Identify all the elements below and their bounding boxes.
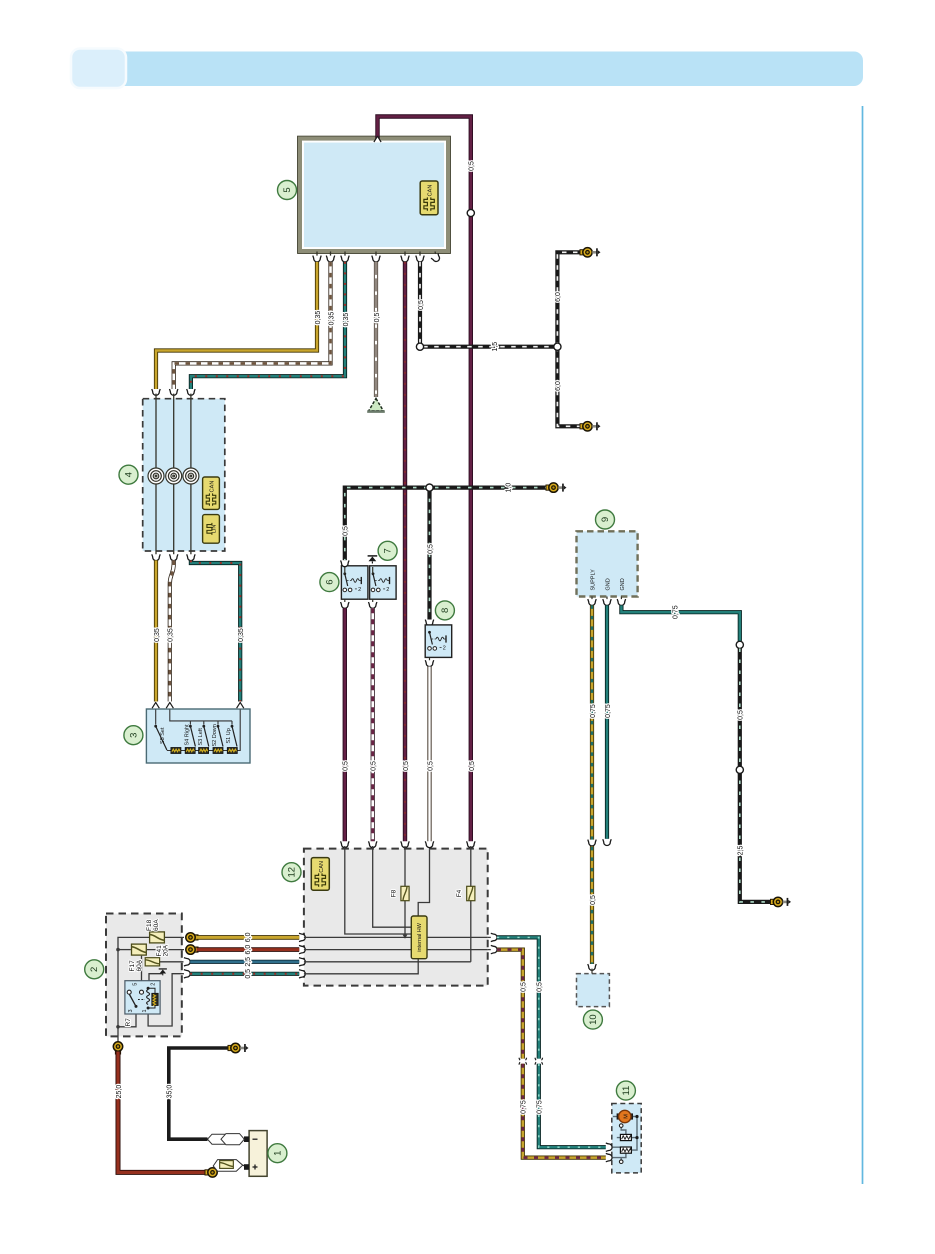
terminal circle a: [619, 1124, 623, 1128]
wire: U9 SUPPLY yellow/green down to U10: [590, 605, 594, 964]
fuse F8: [401, 886, 409, 900]
motor unit U11: [612, 1104, 641, 1173]
svg-text:F8: F8: [391, 889, 398, 897]
svg-text:0,35: 0,35: [168, 628, 175, 642]
svg-text:S2 Down: S2 Down: [212, 724, 218, 746]
svg-text:CAN: CAN: [319, 861, 325, 873]
wire: S8 white down to U12: [427, 667, 431, 843]
motor M: [617, 1110, 633, 1122]
open connector at GND stub end: [603, 839, 611, 845]
switch pack U3: [146, 709, 250, 763]
svg-text:6,0: 6,0: [245, 945, 252, 955]
fuse F41: [145, 958, 159, 966]
svg-text:GND: GND: [620, 578, 626, 590]
wire: U9 GND green stub: [605, 605, 609, 838]
ground stud G1: [580, 248, 601, 257]
svg-text:F4: F4: [456, 889, 463, 897]
ground stud G2: [580, 422, 601, 431]
U12 right pin cups: [488, 937, 492, 949]
svg-text:35,0: 35,0: [167, 1085, 174, 1099]
svg-text:1,5: 1,5: [492, 342, 499, 352]
wire: S6 violet down to U12: [343, 608, 347, 842]
U12 internal wiring: [304, 846, 488, 974]
junction box U12: [304, 849, 488, 986]
fuse box U2: [106, 914, 182, 1037]
svg-text:0,5: 0,5: [343, 526, 350, 536]
switch S3 Left: [198, 725, 209, 747]
svg-text:F18: F18: [146, 919, 153, 931]
control module U5 outline: [298, 136, 451, 253]
U10 top pin cup: [588, 964, 596, 970]
svg-text:6: 6: [324, 579, 335, 584]
svg-text:0,35: 0,35: [328, 312, 335, 326]
wire: U2 to U12 red 6,0: [197, 947, 300, 952]
svg-text:10: 10: [588, 1014, 599, 1025]
U5 bottom pin cups: [317, 252, 436, 257]
svg-text:6,0: 6,0: [555, 381, 562, 391]
svg-text:5: 5: [282, 187, 293, 192]
svg-text:0,75: 0,75: [605, 704, 612, 718]
switch S2 Down: [212, 724, 223, 746]
U2 internal wiring: [118, 937, 184, 1043]
fuse F4: [467, 886, 475, 900]
inline connector: [736, 766, 743, 773]
wire: U5 pin6 black/green to ground studs: [420, 252, 583, 426]
sensor U9 box: [577, 531, 638, 596]
resistor R_S1: [227, 748, 237, 754]
inline connector on supply wire: [588, 840, 596, 846]
svg-text:2,5: 2,5: [738, 846, 745, 856]
label circle 5: [278, 181, 297, 200]
label circle 2: [85, 960, 104, 979]
U4 top pin cups: [152, 389, 195, 395]
filter coil 1: [148, 468, 164, 484]
label circle 6: [320, 573, 339, 592]
svg-text:0,5: 0,5: [245, 969, 252, 979]
svg-text:3: 3: [128, 1009, 134, 1012]
svg-text:0,5: 0,5: [469, 161, 476, 171]
wire: U2 to U12 yellow 6,0: [197, 935, 300, 940]
wire: battery positive red 25,0: [118, 1052, 208, 1173]
fuse F18: [150, 932, 165, 943]
U9 bottom pin cups: [592, 597, 621, 601]
connector block U4: [143, 399, 225, 551]
wire: S7 white/violet down to U12: [371, 608, 375, 842]
label circle 10: [583, 1010, 602, 1029]
wire: U2 to U12 blue 2,5: [190, 960, 299, 964]
wire: U5 pin1 yellow to U4: [156, 262, 317, 389]
wire: U4 to U3 green/red: [191, 560, 240, 701]
label circle 9: [596, 510, 615, 529]
ground triangle: [367, 399, 385, 412]
U12 top pin cups: [341, 841, 475, 847]
inline connector at corner: [416, 343, 423, 350]
svg-text:0,5: 0,5: [590, 895, 597, 905]
svg-text:0,5: 0,5: [343, 761, 350, 771]
svg-text:M: M: [623, 1114, 629, 1119]
wire: battery negative black 35,0: [169, 1048, 231, 1139]
eyelet at battery end: [205, 1168, 217, 1177]
switch S7 box: [370, 566, 397, 599]
svg-text:0,75: 0,75: [590, 704, 597, 718]
connector pair on yellow/violet wire: [519, 1058, 527, 1065]
svg-text:60A: 60A: [153, 919, 160, 931]
label circle 3: [124, 726, 143, 745]
switch S8 box: [425, 625, 452, 658]
svg-text:0,5: 0,5: [537, 982, 544, 992]
svg-text:0,5: 0,5: [403, 761, 410, 771]
svg-text:0,5: 0,5: [427, 544, 434, 554]
svg-text:0,75: 0,75: [673, 605, 680, 619]
CAN box U4: [203, 477, 220, 509]
svg-text:0,35: 0,35: [315, 311, 322, 325]
CAN box U12: [311, 858, 329, 891]
CAN box U5: [420, 181, 438, 215]
resistor R_S3: [199, 748, 209, 754]
wire: U5 pin3 green/red to U4: [191, 262, 345, 389]
ground stud G5: [228, 1043, 249, 1052]
svg-text:1: 1: [272, 1151, 283, 1156]
S6/S7/S8 pin cups: [345, 565, 430, 661]
inline connector boats on negative lead: [208, 1134, 245, 1145]
svg-text:0,75: 0,75: [537, 1100, 544, 1114]
label circle 7: [378, 541, 397, 560]
svg-text:6,0: 6,0: [555, 292, 562, 302]
svg-text:S5 Set: S5 Set: [160, 727, 166, 744]
off-page arrow in U2: [159, 969, 167, 975]
svg-text:0,35: 0,35: [154, 628, 161, 642]
label circle 11: [616, 1081, 635, 1100]
U3 top pin cups: [152, 702, 244, 708]
svg-text:1,0: 1,0: [506, 483, 513, 493]
U11 internals: [613, 1117, 638, 1160]
right page border line: [862, 106, 864, 1184]
U2 right eyelets: [186, 933, 198, 942]
wire: U9 GND2 green to right: [621, 605, 739, 641]
svg-text:GND: GND: [606, 578, 612, 590]
svg-text:R7: R7: [125, 1018, 132, 1027]
terminal circle b: [619, 1160, 623, 1164]
svg-text:CAN: CAN: [210, 481, 216, 493]
svg-text:0,5: 0,5: [418, 300, 425, 310]
U12 left pin cups: [299, 933, 305, 978]
svg-text:0,75: 0,75: [521, 1100, 528, 1114]
resistor U11 a: [620, 1134, 631, 1140]
header tab: [71, 49, 126, 89]
svg-text:2,5: 2,5: [245, 957, 252, 967]
junction connector: [426, 484, 433, 491]
label circle 8: [435, 601, 454, 620]
svg-text:2: 2: [89, 967, 100, 972]
inline connector: [736, 641, 743, 648]
svg-text:1: 1: [142, 1009, 148, 1012]
svg-text:S3 Left: S3 Left: [198, 728, 204, 746]
fuse F17: [132, 944, 147, 955]
pin chevron U5 top: [374, 136, 381, 142]
wire: U5 pin4 white to ground triangle: [374, 262, 378, 397]
ground stud G3: [546, 483, 567, 492]
wire: U5 pin5 violet down to U12: [403, 262, 407, 842]
internal HW module: [411, 916, 427, 959]
svg-text:SUPPLY: SUPPLY: [590, 569, 596, 591]
switch S5 Set: [154, 725, 167, 750]
relay R7: [125, 981, 160, 1014]
svg-text:0,5: 0,5: [521, 982, 528, 992]
svg-text:2: 2: [151, 983, 157, 986]
LIN box U4: [203, 515, 220, 544]
svg-text:LIN: LIN: [212, 525, 218, 534]
svg-text:60A: 60A: [136, 959, 143, 971]
filter coil 2: [166, 468, 182, 484]
switch S4 Right: [185, 724, 196, 747]
U3 bottom resistor bus: [167, 750, 237, 752]
svg-text:6,0: 6,0: [245, 932, 252, 942]
svg-text:0,5: 0,5: [469, 761, 476, 771]
svg-text:0,35: 0,35: [343, 313, 350, 327]
wire: battery feed loop from U5 top: [378, 117, 471, 843]
label circle 1: [268, 1144, 287, 1163]
svg-text:0,5: 0,5: [427, 761, 434, 771]
battery U1: [244, 1131, 267, 1177]
svg-text:20A: 20A: [162, 944, 169, 956]
sensor U10 box: [577, 974, 610, 1007]
resistor R_S4: [185, 748, 195, 754]
svg-text:3: 3: [128, 733, 139, 738]
filter coil 3: [183, 468, 199, 484]
svg-text:12: 12: [287, 867, 298, 878]
svg-text:F17: F17: [129, 960, 136, 972]
svg-text:0,5: 0,5: [371, 761, 378, 771]
resistor U11 b: [620, 1147, 631, 1153]
svg-text:5: 5: [133, 983, 139, 986]
svg-text:S1 Up: S1 Up: [226, 728, 232, 743]
off-page arrow above S7: [368, 556, 378, 564]
label circle 4: [119, 465, 138, 484]
svg-text:8: 8: [440, 608, 451, 613]
fusible link holder: [213, 1160, 246, 1172]
svg-text:0,5: 0,5: [738, 710, 745, 720]
wire: U12 to U11 green 0,5/0,75: [497, 937, 606, 1147]
svg-text:0,35: 0,35: [238, 628, 245, 642]
wire: black/green to ground stud right: [740, 649, 773, 902]
wire: U4 to U3 yellow: [154, 560, 158, 701]
svg-text:internal HW: internal HW: [417, 922, 423, 952]
U4 internal pass wires: [156, 394, 191, 555]
svg-text:7: 7: [383, 548, 394, 553]
switch S1 Up: [226, 725, 237, 747]
U11 left pin cups: [606, 1143, 612, 1162]
svg-text:4: 4: [124, 472, 135, 477]
svg-text:9: 9: [600, 517, 611, 522]
wire: U5 pin2 white/brown to U4: [174, 262, 331, 389]
fusible link fuse: [220, 1161, 234, 1169]
U3 internal bus: [156, 710, 241, 751]
junction connector: [554, 343, 561, 350]
ground distribution wire black/green: [345, 488, 549, 620]
ground stud G4: [771, 897, 792, 906]
svg-text:S4 Right: S4 Right: [185, 724, 191, 746]
eyelet below U2: [113, 1042, 122, 1054]
svg-text:11: 11: [621, 1086, 632, 1096]
header band: [73, 52, 863, 87]
wire: U4 to U3 white/brown: [170, 560, 174, 701]
wire: U12 to U11 yellow/violet 0,5/0,75: [497, 950, 606, 1158]
inline connector on battery loop: [467, 209, 474, 216]
connector pair on green wire: [535, 1058, 543, 1065]
U2 right pin cups: [184, 958, 190, 978]
U4 bottom pin cups: [152, 554, 195, 560]
wire: U2 to U12 green/red 0,5: [190, 972, 299, 976]
resistor R_S2: [213, 748, 223, 754]
label circle 12: [282, 863, 301, 882]
switch S6 box: [341, 566, 368, 599]
svg-text:CAN: CAN: [428, 185, 434, 197]
resistor R_S5: [171, 748, 181, 754]
svg-text:0,5: 0,5: [374, 313, 381, 323]
svg-text:25,0: 25,0: [116, 1085, 123, 1099]
